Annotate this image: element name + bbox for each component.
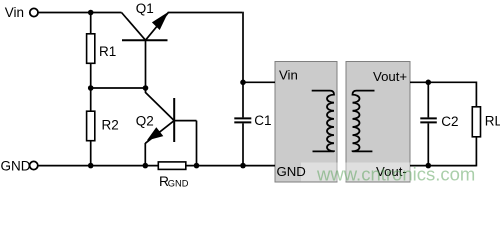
wire: Vout- rail to RL [410, 165, 476, 167]
node: junction dot C1 column / box branch [240, 80, 246, 86]
inductor secondary coil [353, 91, 375, 152]
wire: vertical C1 column upper [242, 12, 244, 118]
wire: bottom rail GND to left box [38, 165, 275, 167]
inductor primary coil [312, 91, 334, 152]
resistor R1 [90, 13, 92, 34]
svg-text:Q2: Q2 [136, 114, 154, 129]
svg-text:Vout+: Vout+ [373, 69, 407, 84]
wire: top rail Q1 emitter to C1 column [168, 12, 242, 14]
svg-text:RL: RL [485, 114, 500, 129]
wire: C2 branch upper [427, 82, 429, 117]
node: junction dot Vout- rail / C2 [426, 163, 432, 169]
svg-text:www.cntronics.com: www.cntronics.com [316, 164, 475, 185]
wire: branch into left box Vin [243, 81, 275, 83]
svg-text:C1: C1 [254, 113, 271, 128]
svg-text:GND: GND [168, 178, 189, 188]
wire: Vout+ rail to RL [410, 81, 476, 83]
terminal GND [30, 161, 38, 169]
svg-text:Vin: Vin [5, 5, 24, 20]
capacitor C2 [420, 117, 437, 119]
svg-text:Q1: Q1 [136, 1, 154, 16]
capacitor C1 [234, 117, 251, 119]
node: junction dot R1/R2 row right (Q1 base) [143, 85, 149, 91]
wire: node row R1/R2 to Q1 base [91, 87, 146, 89]
node: junction dot top rail / R1 [88, 10, 94, 16]
wire: C2 branch lower [427, 123, 429, 165]
svg-text:R1: R1 [99, 44, 116, 59]
transistor Q2 [145, 88, 196, 166]
resistor R2 [90, 88, 92, 111]
transistor Q1 [122, 12, 169, 88]
node: junction dot Vout+ rail / C2 [426, 80, 432, 86]
node: junction dot Q2 emitter / bottom rail [143, 163, 149, 169]
svg-text:GND: GND [1, 158, 31, 173]
resistor RL [475, 82, 477, 108]
terminal Vin [30, 8, 38, 16]
svg-text:Vin: Vin [279, 67, 298, 82]
node: junction dot R1/R2 row left [88, 85, 94, 91]
node: junction dot Q2 base / bottom rail [194, 163, 200, 169]
watermark background strip [301, 163, 500, 182]
svg-text:R2: R2 [102, 117, 119, 132]
svg-text:GND: GND [277, 164, 306, 179]
wire: vertical C1 column lower [242, 123, 244, 165]
module box right (Vout+/Vout-) [346, 62, 410, 183]
node: junction dot R2 bottom [88, 163, 94, 169]
svg-text:C2: C2 [441, 114, 458, 129]
node: junction dot C1 column / bottom rail [240, 163, 246, 169]
resistor R_GND [158, 162, 186, 170]
module box left (Vin/GND) [275, 62, 337, 183]
wire: top rail Vin to Q1 collector [38, 12, 122, 14]
